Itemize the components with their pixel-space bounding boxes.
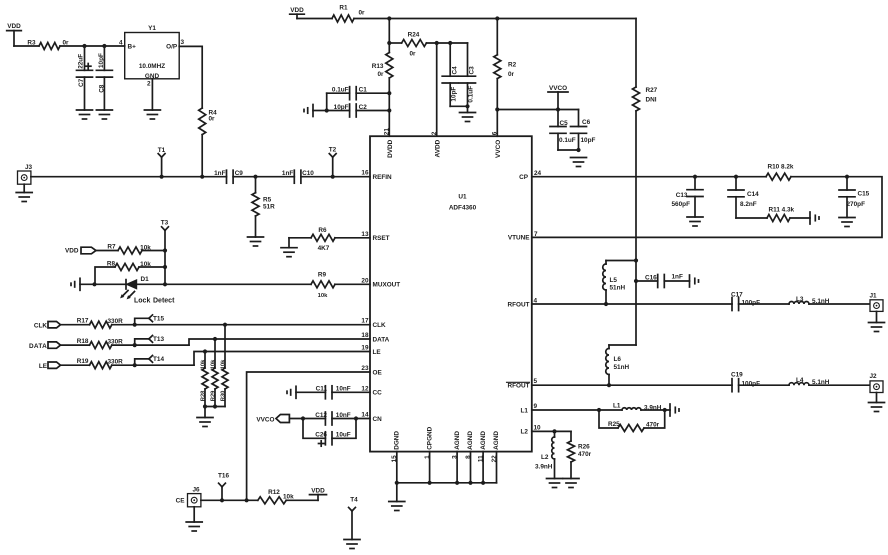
svg-text:R27: R27 bbox=[646, 87, 658, 94]
resistor R29 10k bbox=[211, 339, 218, 407]
svg-text:330R: 330R bbox=[108, 318, 124, 325]
pin 11 AGND label bbox=[477, 431, 486, 462]
node C2 tee bbox=[387, 108, 391, 112]
svg-text:10k: 10k bbox=[140, 244, 151, 251]
svg-text:100pF: 100pF bbox=[742, 380, 761, 387]
test point T14 bbox=[133, 356, 165, 368]
svg-text:T1: T1 bbox=[158, 147, 166, 154]
svg-text:T14: T14 bbox=[153, 356, 164, 363]
resistor R12 10k bbox=[258, 489, 318, 504]
svg-text:L1: L1 bbox=[613, 402, 621, 409]
svg-text:10k: 10k bbox=[221, 359, 227, 369]
svg-text:9: 9 bbox=[534, 403, 538, 410]
svg-text:R7: R7 bbox=[107, 243, 116, 250]
pin 2 AVDD label bbox=[431, 131, 442, 157]
svg-text:R8: R8 bbox=[107, 260, 116, 267]
svg-text:CLK: CLK bbox=[34, 322, 48, 329]
pin 21 DVDD label bbox=[384, 128, 395, 158]
svg-text:AVDD: AVDD bbox=[435, 139, 442, 157]
svg-text:VVCO: VVCO bbox=[549, 85, 567, 92]
ground (C8) bbox=[96, 110, 112, 119]
svg-text:R25: R25 bbox=[608, 421, 620, 428]
svg-text:C4: C4 bbox=[452, 66, 459, 75]
test point T3 bbox=[161, 219, 169, 250]
svg-text:RFOUT: RFOUT bbox=[507, 301, 529, 308]
svg-text:VDD: VDD bbox=[65, 248, 79, 255]
svg-text:C6: C6 bbox=[582, 119, 591, 126]
svg-text:T16: T16 bbox=[218, 473, 229, 480]
ground (chip DGND) bbox=[389, 502, 405, 511]
ground (R26) bbox=[563, 479, 579, 488]
wire DATA jog to pin 18 bbox=[189, 339, 370, 345]
node gnd rail 2 bbox=[455, 481, 459, 485]
svg-text:1nF: 1nF bbox=[672, 273, 683, 280]
resistor R13 0r bbox=[372, 53, 393, 79]
svg-text:AGND: AGND bbox=[480, 431, 487, 450]
svg-text:0r: 0r bbox=[508, 71, 515, 78]
capacitor C5 0.1uF bbox=[550, 110, 579, 151]
svg-text:6: 6 bbox=[492, 131, 499, 135]
wire rail to ground bbox=[396, 483, 398, 502]
wire R10 to corner and VTUNE return bbox=[532, 177, 882, 238]
svg-text:ADF4360: ADF4360 bbox=[449, 205, 477, 212]
node L5 tee bbox=[634, 258, 638, 262]
wire J6 to R12 bbox=[201, 499, 258, 501]
pin 4 RFOUT label bbox=[507, 298, 537, 309]
node R28 tee bbox=[203, 349, 207, 353]
wire VDD rail to R2 bbox=[496, 19, 498, 55]
power tag VVCO (CN) bbox=[256, 415, 289, 424]
wire R4 to REFIN line bbox=[201, 135, 203, 177]
capacitor C3 0.1uF bbox=[460, 43, 476, 113]
resistor R5 51R bbox=[252, 177, 275, 237]
svg-text:J3: J3 bbox=[25, 164, 33, 171]
svg-text:U1: U1 bbox=[458, 194, 467, 201]
svg-text:0r: 0r bbox=[209, 116, 216, 123]
ground (J2) bbox=[869, 403, 885, 412]
wire gnd to C1/C2 bus bbox=[313, 93, 350, 110]
svg-text:AGND: AGND bbox=[467, 431, 474, 450]
svg-text:4: 4 bbox=[119, 40, 123, 47]
wire gnd to D1 bbox=[80, 283, 126, 285]
ground (C16, sideways) bbox=[690, 275, 699, 287]
wire L5 branch bbox=[606, 261, 636, 265]
ground (R11, sideways) bbox=[810, 212, 819, 224]
ground (Y1) bbox=[144, 110, 160, 119]
wire R24 to chip AVDD pin 2 bbox=[436, 43, 438, 136]
inductor L5 51nH bbox=[603, 264, 626, 304]
capacitor C10 1nF bbox=[282, 170, 314, 183]
pin 17 CLK label bbox=[361, 318, 386, 329]
svg-text:R19: R19 bbox=[77, 358, 89, 365]
node R4/REFIN bbox=[200, 175, 204, 179]
wire Y1 O/P to R4 bbox=[179, 46, 202, 108]
ground (J6) bbox=[186, 522, 202, 531]
pin 9 L1 label bbox=[521, 403, 538, 414]
svg-text:470r: 470r bbox=[578, 451, 592, 458]
svg-text:14: 14 bbox=[361, 412, 369, 419]
svg-text:0r: 0r bbox=[409, 51, 416, 58]
svg-text:VDD: VDD bbox=[311, 488, 325, 495]
node R5 top bbox=[253, 175, 257, 179]
node rail R29 bbox=[213, 404, 217, 408]
svg-text:R11 4.3k: R11 4.3k bbox=[769, 207, 795, 214]
svg-text:VVCO: VVCO bbox=[495, 140, 502, 158]
node R8/D1 bbox=[92, 282, 96, 286]
svg-text:16: 16 bbox=[361, 170, 369, 177]
test point T2 bbox=[329, 147, 337, 179]
svg-text:12: 12 bbox=[361, 385, 369, 392]
svg-text:330R: 330R bbox=[108, 339, 124, 346]
node L5/RFOUT bbox=[604, 302, 608, 306]
node C16 tee bbox=[634, 279, 638, 283]
svg-text:C11: C11 bbox=[316, 386, 328, 393]
pin 3 AGND label bbox=[451, 431, 460, 459]
node C14 tee bbox=[734, 175, 738, 179]
input tag DATA bbox=[29, 342, 61, 350]
ground (C13) bbox=[687, 217, 703, 226]
svg-text:R28: R28 bbox=[201, 390, 207, 401]
capacitor C6 10pF bbox=[571, 110, 596, 151]
svg-text:DGND: DGND bbox=[394, 431, 401, 450]
svg-text:10pF: 10pF bbox=[581, 137, 596, 144]
svg-text:C2: C2 bbox=[359, 104, 368, 111]
svg-text:10pF: 10pF bbox=[334, 104, 349, 111]
resistor R26 470r bbox=[568, 431, 592, 478]
op-amp U1 ADF4360 (PLL synthesizer IC) bbox=[370, 136, 532, 451]
wire L3 to J1 bbox=[809, 303, 870, 305]
svg-text:51nH: 51nH bbox=[614, 364, 630, 371]
svg-text:OE: OE bbox=[373, 370, 383, 377]
svg-text:AGND: AGND bbox=[454, 431, 461, 450]
capacitor C26 10uF bbox=[303, 419, 356, 447]
svg-text:VDD: VDD bbox=[7, 23, 21, 30]
svg-text:O/P: O/P bbox=[166, 44, 178, 51]
ground (D1, sideways) bbox=[71, 278, 80, 290]
ground (J1) bbox=[869, 323, 885, 332]
node gnd rail 4 bbox=[481, 481, 485, 485]
svg-text:T13: T13 bbox=[153, 336, 164, 343]
wire CP line bbox=[532, 176, 766, 178]
svg-text:CN: CN bbox=[373, 416, 383, 423]
resistor R8 10k bbox=[95, 260, 165, 284]
svg-text:2: 2 bbox=[147, 80, 151, 87]
pin 5 RFOUTB label bbox=[507, 378, 538, 389]
pin 7 VTUNE label bbox=[508, 231, 538, 242]
wire LE jog to pin 19 bbox=[194, 352, 370, 366]
svg-text:D1: D1 bbox=[141, 276, 150, 283]
svg-text:AGND: AGND bbox=[493, 431, 500, 450]
svg-text:L3: L3 bbox=[796, 296, 804, 303]
pin 20 MUXOUT label bbox=[361, 277, 400, 288]
ground (R6, left) bbox=[281, 238, 297, 257]
capacitor C13 560pF bbox=[672, 177, 704, 217]
svg-text:C5: C5 bbox=[560, 120, 569, 127]
node rail R28 bbox=[203, 404, 207, 408]
svg-text:CE: CE bbox=[176, 498, 186, 505]
pin 22 AGND label bbox=[491, 431, 500, 463]
wire J3 to C9 bbox=[31, 176, 227, 178]
svg-text:C8: C8 bbox=[98, 84, 105, 93]
svg-text:10k: 10k bbox=[201, 359, 207, 369]
wire D1 to R9 bbox=[137, 283, 311, 285]
LED D1 Lock Detect bbox=[120, 276, 175, 304]
resistor R25 470r bbox=[599, 410, 665, 432]
node C3/C4 bottoms bbox=[465, 104, 469, 108]
test point T1 bbox=[158, 147, 166, 179]
node C13 tee bbox=[693, 175, 697, 179]
pin 23 OE label bbox=[361, 365, 382, 377]
power flag VDD (R12) bbox=[310, 488, 327, 501]
svg-text:19: 19 bbox=[361, 345, 369, 352]
svg-text:T4: T4 bbox=[350, 497, 358, 504]
pin 12 CC label bbox=[361, 385, 382, 396]
label CE bbox=[176, 498, 186, 505]
svg-text:L5: L5 bbox=[610, 277, 618, 284]
resistor R27 DNI bbox=[633, 87, 658, 111]
inductor L3 5.1nH bbox=[789, 296, 830, 305]
svg-text:MUXOUT: MUXOUT bbox=[373, 282, 401, 289]
inductor L4 5.1nH bbox=[789, 377, 830, 386]
pin 1 CPGND label bbox=[424, 426, 433, 459]
svg-text:100pF: 100pF bbox=[742, 300, 761, 307]
power tag VDD (R7) bbox=[65, 247, 96, 254]
wire L1 pin 9 bbox=[532, 409, 599, 411]
svg-text:17: 17 bbox=[361, 318, 369, 325]
capacitor C7 22uF bbox=[77, 46, 93, 110]
input tag CLK bbox=[34, 322, 61, 330]
test point T15 bbox=[133, 315, 165, 327]
svg-text:T15: T15 bbox=[153, 316, 164, 323]
svg-text:L4: L4 bbox=[796, 377, 804, 384]
wire C17 to L3 bbox=[739, 303, 789, 305]
svg-text:10.0MHZ: 10.0MHZ bbox=[139, 63, 165, 70]
ground (T4) bbox=[344, 540, 360, 549]
svg-text:T3: T3 bbox=[161, 219, 169, 226]
svg-text:470r: 470r bbox=[646, 422, 660, 429]
node gnd rail 3 bbox=[468, 481, 472, 485]
svg-text:R9: R9 bbox=[318, 271, 327, 278]
svg-text:10k: 10k bbox=[140, 261, 151, 268]
pin 19 LE label bbox=[361, 345, 381, 356]
svg-text:R13: R13 bbox=[372, 63, 384, 70]
pin 24 CP label bbox=[519, 170, 541, 181]
inductor L1 3.9nH bbox=[613, 402, 662, 411]
svg-text:R2: R2 bbox=[508, 61, 517, 68]
wire Y1 GND pin 2 bbox=[151, 79, 153, 110]
svg-text:DATA: DATA bbox=[29, 343, 47, 350]
node R29 tee bbox=[213, 337, 217, 341]
svg-text:VTUNE: VTUNE bbox=[508, 235, 530, 242]
wire VDD rail corner down bbox=[635, 19, 637, 88]
input tag LE bbox=[39, 362, 61, 370]
node R8/T3 line bbox=[163, 265, 167, 269]
svg-text:330R: 330R bbox=[108, 359, 124, 366]
capacitor C9 1nF bbox=[214, 170, 243, 183]
wire pulldown rail bbox=[205, 407, 225, 418]
capacitor C11 10nF bbox=[296, 386, 370, 399]
svg-text:L6: L6 bbox=[614, 356, 622, 363]
svg-text:VDD: VDD bbox=[290, 7, 304, 14]
power flag VDD (net VDD, top left) bbox=[7, 23, 22, 46]
svg-text:10pF: 10pF bbox=[450, 87, 457, 102]
pin 14 CN label bbox=[361, 412, 382, 423]
svg-text:4K7: 4K7 bbox=[318, 245, 330, 252]
capacitor C19 100pF bbox=[731, 372, 760, 392]
resistor R17 330R bbox=[61, 318, 371, 329]
svg-text:Y1: Y1 bbox=[148, 25, 156, 32]
node D1 cathode/T3 bbox=[163, 282, 167, 286]
pin 10 L2 label bbox=[521, 425, 542, 436]
svg-text:51nH: 51nH bbox=[610, 285, 626, 292]
svg-text:T2: T2 bbox=[329, 147, 337, 154]
ground (J3) bbox=[16, 193, 32, 202]
node C26 tee right bbox=[354, 416, 358, 420]
svg-text:0.1uF: 0.1uF bbox=[559, 137, 576, 144]
wire OE pin 23 to CE line bbox=[247, 372, 370, 500]
svg-text:3: 3 bbox=[181, 39, 185, 46]
wire C9 to C10 bbox=[233, 176, 294, 178]
svg-text:DVDD: DVDD bbox=[387, 139, 394, 157]
svg-text:B+: B+ bbox=[128, 44, 137, 51]
svg-text:R18: R18 bbox=[77, 338, 89, 345]
pin 6 VVCO label bbox=[492, 131, 503, 158]
svg-text:R3: R3 bbox=[27, 39, 36, 46]
node C26 tee left bbox=[301, 416, 305, 420]
resistor R18 330R bbox=[61, 338, 190, 349]
wire R13 to chip DVDD pin 21 bbox=[388, 78, 390, 136]
node C5 tee bbox=[556, 107, 560, 111]
svg-text:0.1uF: 0.1uF bbox=[468, 86, 475, 103]
wire GND pin stems bbox=[397, 452, 497, 483]
svg-text:R29: R29 bbox=[211, 390, 217, 401]
capacitor C15 270pF bbox=[839, 177, 870, 218]
ground (C3/C4) bbox=[460, 113, 476, 122]
wire VDD to R3 bbox=[14, 45, 39, 47]
ground (R5) bbox=[248, 237, 264, 246]
node junction C7 bbox=[82, 44, 86, 48]
svg-text:CLK: CLK bbox=[373, 322, 387, 329]
power flag VDD (net VDD, above R1) bbox=[290, 7, 305, 18]
svg-text:21: 21 bbox=[384, 128, 391, 136]
wire GND rail bbox=[397, 482, 497, 484]
node junction C8 bbox=[102, 44, 106, 48]
resistor R4 bbox=[199, 108, 217, 135]
ground (C15) bbox=[839, 218, 855, 227]
capacitor C4 10pF bbox=[442, 43, 467, 106]
svg-text:13: 13 bbox=[361, 231, 369, 238]
svg-text:RSET: RSET bbox=[373, 235, 390, 242]
pin 16 REFIN label bbox=[361, 170, 392, 181]
capacitor C16 1nF bbox=[636, 273, 690, 287]
resistor R11 4.3k bbox=[736, 207, 810, 222]
svg-text:C17: C17 bbox=[731, 291, 743, 298]
svg-text:C13: C13 bbox=[676, 192, 688, 199]
svg-text:CP: CP bbox=[519, 174, 529, 181]
svg-text:DATA: DATA bbox=[373, 336, 390, 343]
wire L2 pin 10 bbox=[532, 430, 571, 432]
svg-text:270pF: 270pF bbox=[847, 201, 866, 208]
node L1 right bbox=[663, 408, 667, 412]
resistor R3 bbox=[27, 39, 69, 49]
svg-text:R26: R26 bbox=[578, 444, 590, 451]
svg-text:10k: 10k bbox=[211, 359, 217, 369]
connector J6 bbox=[188, 486, 201, 522]
svg-text:R30: R30 bbox=[221, 391, 227, 402]
svg-text:C1: C1 bbox=[359, 87, 368, 94]
wire to L1 coil bbox=[599, 409, 622, 411]
wire VDD rail to R13 bbox=[388, 19, 390, 53]
svg-text:10nF: 10nF bbox=[336, 386, 351, 393]
node C5/C6 bottoms bbox=[576, 148, 580, 152]
wire R1 to R27 corner (VDD rail) bbox=[354, 18, 636, 20]
node C1/C2 left bus bbox=[325, 108, 329, 112]
svg-text:C7: C7 bbox=[78, 78, 85, 87]
svg-text:10nF: 10nF bbox=[336, 412, 351, 419]
svg-text:CC: CC bbox=[373, 390, 383, 397]
resistor R10 8.2k bbox=[766, 164, 794, 181]
svg-text:R17: R17 bbox=[77, 318, 89, 325]
svg-text:R6: R6 bbox=[318, 227, 327, 234]
wire L1 coil to gnd bbox=[641, 409, 670, 411]
svg-text:3.9nH: 3.9nH bbox=[535, 464, 553, 471]
node T3/R7 bbox=[163, 248, 167, 252]
svg-text:560pF: 560pF bbox=[672, 201, 691, 208]
inductor L2 3.9nH bbox=[535, 431, 555, 478]
svg-text:10uF: 10uF bbox=[336, 432, 351, 439]
svg-text:J2: J2 bbox=[870, 373, 878, 380]
inductor L6 51nH bbox=[606, 349, 630, 386]
svg-text:2: 2 bbox=[431, 131, 438, 135]
wire VVCO tee to C6 bbox=[497, 109, 578, 111]
svg-text:L1: L1 bbox=[521, 407, 529, 414]
node AVDD branch bbox=[435, 41, 439, 45]
svg-text:R1: R1 bbox=[339, 4, 348, 11]
svg-text:REFIN: REFIN bbox=[373, 174, 393, 181]
svg-text:VVCO: VVCO bbox=[256, 416, 274, 423]
svg-text:1nF: 1nF bbox=[214, 170, 225, 177]
node C4 tee bbox=[448, 41, 452, 45]
node R24 tee bbox=[387, 41, 391, 45]
node R2 branch bbox=[495, 16, 499, 20]
svg-text:LE: LE bbox=[373, 349, 382, 356]
wire C10 to chip REFIN bbox=[301, 176, 370, 178]
ground (pulldown rail) bbox=[197, 418, 213, 427]
ground (C11, sideways) bbox=[287, 386, 296, 398]
connector J3 bbox=[18, 164, 33, 192]
capacitor C17 100pF bbox=[731, 291, 760, 310]
svg-text:R24: R24 bbox=[408, 32, 420, 39]
svg-text:8.2nF: 8.2nF bbox=[740, 201, 757, 208]
svg-text:0r: 0r bbox=[358, 10, 365, 17]
pin 18 DATA label bbox=[361, 332, 389, 343]
wire T3 vertical bbox=[164, 251, 166, 285]
svg-text:C16: C16 bbox=[645, 274, 657, 281]
svg-text:0.1uF: 0.1uF bbox=[332, 87, 349, 94]
node OE/CE bbox=[245, 498, 249, 502]
resistor R24 0r bbox=[389, 32, 467, 58]
node VVCO tee bbox=[495, 107, 499, 111]
node L2 tee bbox=[552, 429, 556, 433]
svg-text:5: 5 bbox=[534, 378, 538, 385]
wire C19 to L4 bbox=[739, 384, 789, 386]
pin 13 RSET label bbox=[361, 231, 389, 242]
svg-text:C15: C15 bbox=[858, 191, 870, 198]
wire R3 to Y1 pin 4 bbox=[60, 45, 125, 47]
connector J1 bbox=[870, 293, 884, 323]
svg-text:51R: 51R bbox=[263, 203, 275, 210]
wire R2 to chip VVCO pin 6 bbox=[496, 79, 498, 137]
